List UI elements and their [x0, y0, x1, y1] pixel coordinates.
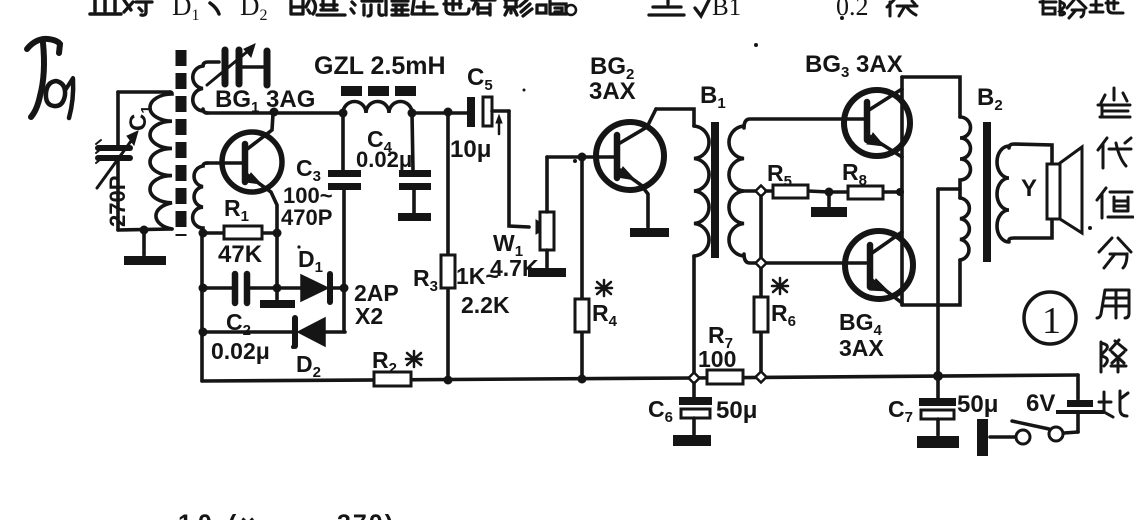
capacitor C4	[399, 113, 431, 214]
svg-text:370): 370)	[337, 510, 395, 520]
resistor R1	[202, 226, 277, 239]
char: liu	[351, 1, 383, 16]
char: ye	[444, 0, 469, 14]
svg-text:R3: R3	[413, 265, 438, 295]
node: R6/base line diamond	[756, 258, 767, 269]
char: zhi2	[1097, 188, 1133, 218]
switch K	[977, 419, 1078, 456]
node: center tap diamond	[756, 186, 767, 197]
svg-text:2.2K: 2.2K	[461, 292, 510, 318]
transistor BG1	[206, 114, 282, 233]
node: R4 bottom	[578, 375, 587, 384]
wire: emitter to C2 node	[275, 233, 279, 288]
svg-text:R4: R4	[592, 300, 618, 330]
svg-text:6V: 6V	[1026, 390, 1055, 417]
capacitor C3	[328, 170, 361, 190]
node: GZL right	[408, 109, 417, 118]
svg-text:270P: 270P	[105, 176, 130, 227]
svg-text:R1: R1	[224, 195, 249, 225]
node: base/W1/R4 junction	[578, 153, 587, 162]
node: R1 left	[199, 229, 208, 238]
capacitor C2	[202, 274, 277, 303]
char: ya	[412, 0, 437, 14]
svg-text:1: 1	[1042, 300, 1061, 342]
node: C2 right / D1 anode	[273, 284, 282, 293]
wire to ground from tank	[142, 230, 146, 255]
ferrite rod antenna core	[176, 50, 187, 236]
svg-text:C7: C7	[888, 396, 913, 426]
transistor BG3	[844, 89, 910, 157]
ground (C6)	[673, 435, 711, 446]
wire: B1 primary to rail	[692, 256, 696, 377]
clipped caption text row (top)	[90, 0, 709, 16]
capacitor C1 (variable, 270P)	[96, 131, 138, 188]
symbol: asterisk mark R6	[772, 278, 788, 294]
potentiometer W1	[536, 157, 554, 267]
node: GZL left	[339, 109, 348, 118]
transistor BG2	[596, 109, 664, 227]
node: R5/R8 junction	[825, 188, 834, 197]
node: R1 right / emitter	[273, 229, 282, 238]
char: jiang	[1101, 340, 1126, 372]
diode D1	[277, 274, 345, 302]
ground (BG2 emitter)	[630, 228, 669, 237]
wire: B1 secondary bottom to BG4 base	[744, 254, 866, 263]
core of GZL choke	[341, 86, 416, 96]
inductor GZL 2.5mH	[343, 102, 412, 114]
node: collector junction	[270, 108, 279, 117]
svg-text:Y: Y	[1021, 175, 1037, 202]
svg-text:C5: C5	[467, 64, 493, 94]
char: zhi	[317, 0, 345, 15]
char: fu (volt)	[887, 0, 917, 16]
node: R3/C5 junction	[444, 108, 453, 117]
svg-text:C3: C3	[296, 155, 321, 185]
resistor R2	[374, 372, 411, 386]
svg-text:D1: D1	[172, 0, 200, 24]
node: D2 left	[199, 328, 208, 337]
char: bi	[1099, 391, 1128, 417]
capacitor C7 (50u electrolytic)	[919, 376, 956, 435]
char: fen partial	[1067, 0, 1086, 18]
resistor R4	[575, 157, 589, 380]
ground (tank)	[124, 256, 166, 265]
svg-text:R5: R5	[767, 160, 792, 190]
ground (R5/R8 node)	[811, 192, 847, 217]
svg-text:C2: C2	[226, 309, 251, 339]
svg-text:50μ: 50μ	[716, 397, 757, 424]
resistor R3	[441, 112, 455, 380]
wire: B1 secondary top to BG3 base	[744, 119, 864, 128]
svg-text:GZL 2.5mH: GZL 2.5mH	[314, 52, 446, 80]
svg-text:BG3 3AX: BG3 3AX	[805, 51, 903, 81]
svg-text:D1: D1	[298, 246, 323, 276]
transistor BG4	[845, 231, 913, 303]
ground (detector)	[260, 288, 295, 308]
handwritten figure number T01	[27, 39, 73, 118]
char: check B1	[695, 0, 709, 16]
wire: C3/detector vertical	[343, 114, 344, 332]
svg-text:D2: D2	[240, 0, 268, 24]
char: qie	[90, 0, 121, 14]
svg-text:10μ: 10μ	[450, 136, 491, 163]
capacitor C5 (10u electrolytic)	[467, 97, 509, 134]
wire: B1 center tap	[744, 189, 757, 193]
symbol: asterisk mark R4	[596, 280, 612, 296]
node: B1/C6 diamond	[689, 373, 700, 384]
svg-text:4.7K: 4.7K	[490, 255, 539, 281]
wire: bottom rail	[202, 375, 1078, 381]
char: yong	[1097, 290, 1129, 318]
svg-text:R2: R2	[372, 347, 397, 377]
ground (C7)	[917, 436, 959, 448]
node: C2 left	[199, 284, 208, 293]
char: dai	[1098, 138, 1131, 168]
wire: output stage frame	[902, 77, 960, 305]
wire: C5 to W1 wiper	[509, 111, 529, 227]
resistor R5	[766, 185, 829, 198]
scan speckles	[291, 16, 1092, 349]
node: R6 bottom diamond	[756, 372, 767, 383]
speaker Y	[1047, 147, 1082, 233]
svg-text:B1: B1	[700, 82, 726, 112]
svg-text:3AX: 3AX	[589, 78, 636, 105]
node: R8 right	[896, 188, 904, 196]
core of B1	[711, 122, 719, 258]
svg-text:(×: (×	[228, 510, 259, 520]
resistor R7	[707, 370, 743, 384]
char: fen2	[1099, 238, 1131, 268]
node: tank bottom junction	[140, 226, 149, 235]
transformer B1 secondary	[729, 126, 744, 256]
svg-text:10: 10	[178, 510, 218, 520]
ground (C4)	[398, 213, 431, 221]
transformer B2 primary upper	[960, 117, 971, 198]
wire: left vertical rail	[200, 233, 204, 381]
wire: top rail (tank/collector node)	[206, 111, 343, 115]
svg-text:B2: B2	[977, 84, 1003, 114]
transformer B2 primary lower	[960, 198, 969, 260]
wire: B2 center tap	[938, 187, 960, 191]
svg-text:X2: X2	[355, 303, 383, 329]
svg-text:50μ: 50μ	[957, 391, 998, 418]
char: dang	[1098, 88, 1130, 117]
svg-text:D2: D2	[296, 351, 321, 381]
svg-text:47K: 47K	[218, 241, 263, 268]
right margin column of clipped characters	[1097, 88, 1133, 417]
svg-text:C6: C6	[648, 396, 673, 426]
wire: BG2 collector to B1	[656, 109, 694, 126]
resistor R6	[754, 196, 768, 372]
capacitor trimmer (regeneration)	[207, 44, 267, 85]
inductor L1c base winding	[193, 163, 208, 233]
svg-text:470P: 470P	[281, 205, 332, 230]
char: you	[472, 0, 495, 15]
svg-text:R6: R6	[771, 300, 796, 330]
char: bu partial	[1040, 0, 1065, 15]
svg-text:100: 100	[698, 346, 736, 372]
node: R3 bottom	[444, 376, 453, 385]
capacitor C6 (50u electrolytic)	[679, 383, 712, 434]
svg-text:3AX: 3AX	[839, 335, 884, 361]
svg-text:R8: R8	[842, 159, 867, 189]
char: period	[566, 5, 576, 15]
svg-text:0.02μ: 0.02μ	[356, 147, 412, 172]
char: pian	[386, 0, 408, 15]
wire: BG2 base line	[547, 155, 616, 159]
node: C7/battery junction	[933, 371, 943, 381]
wire: speaker leads	[1009, 144, 1052, 164]
char: di partial	[1090, 0, 1123, 13]
transformer B1 primary	[694, 126, 709, 256]
resistor R8	[829, 186, 902, 199]
ground (W1)	[528, 268, 566, 277]
char: san partial	[649, 0, 684, 15]
symbol: asterisk mark R2	[406, 351, 422, 367]
char: de	[291, 0, 316, 14]
char: ying	[505, 0, 532, 16]
inductor L1b coupling winding	[193, 62, 219, 113]
diode D2	[202, 318, 345, 346]
transformer B2 secondary	[997, 146, 1009, 242]
battery 6V	[1056, 375, 1104, 432]
svg-text:0.02μ: 0.02μ	[211, 338, 270, 364]
core of B2	[983, 122, 991, 262]
char: dui	[124, 0, 152, 15]
figure number circle 1	[1024, 292, 1076, 344]
svg-text:B1: B1	[712, 0, 741, 21]
node: D1 cathode junction	[340, 284, 349, 293]
char: xiang	[537, 1, 566, 14]
wire: tank left branch with C1	[118, 92, 172, 230]
inductor L1a tank winding	[150, 92, 172, 229]
